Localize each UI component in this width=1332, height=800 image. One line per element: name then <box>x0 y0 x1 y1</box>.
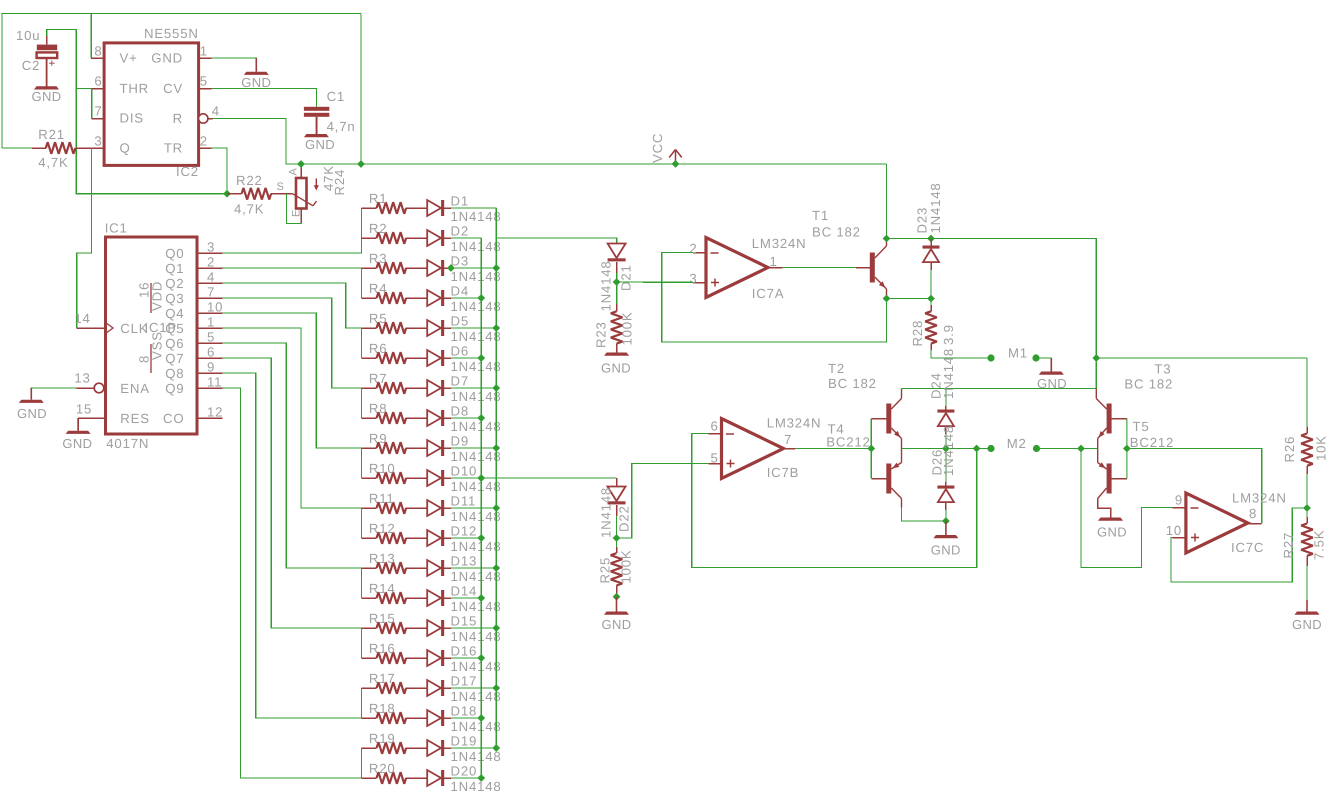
T4 base lead <box>871 478 886 480</box>
ground GND at RES <box>77 418 79 431</box>
IC 555 IC2 box <box>104 43 199 165</box>
junction junction D23 top <box>927 235 935 243</box>
svg-text:VCC: VCC <box>650 133 665 163</box>
wire wire Q6 to R13/R14 bracket <box>223 343 362 598</box>
ground GND at C1 <box>315 117 317 134</box>
wire wire D10 to column <box>451 477 481 479</box>
D24 anode lead <box>945 426 947 434</box>
wire wire D19 to column <box>451 747 496 749</box>
svg-text:Q7: Q7 <box>165 351 184 366</box>
svg-text:3.9: 3.9 <box>941 324 956 345</box>
R28 bottom lead <box>930 344 932 350</box>
R9 right lead <box>406 447 427 449</box>
ground GND at 555 pin1 <box>255 58 257 72</box>
D21 anode lead <box>616 262 618 273</box>
ground GND at D26 <box>945 521 947 535</box>
wire wire Q4 to R9/R10 bracket <box>223 313 362 478</box>
svg-text:LM324N: LM324N <box>1232 490 1287 505</box>
D4 cathode lead <box>444 297 451 299</box>
svg-text:LM324N: LM324N <box>752 236 807 251</box>
ground GND at T5 <box>1110 516 1112 519</box>
555 pin 7 stub <box>92 118 104 120</box>
svg-text:T5: T5 <box>1133 419 1150 434</box>
capacitor C2 top lead <box>46 36 48 45</box>
svg-text:R12: R12 <box>369 521 396 536</box>
svg-text:IC7C: IC7C <box>1231 540 1264 555</box>
diode D14 1N4148 <box>427 590 441 606</box>
svg-text:R2: R2 <box>369 221 387 236</box>
svg-text:1N4148: 1N4148 <box>451 209 502 224</box>
svg-text:GND: GND <box>305 137 335 152</box>
junction junction outer column y508 <box>492 504 500 512</box>
diode D12 1N4148 <box>427 530 441 546</box>
diode D11 1N4148 <box>427 500 441 516</box>
R20 left lead <box>361 777 376 779</box>
wire wire IC7A pin2 feedback <box>662 253 887 343</box>
svg-text:R19: R19 <box>369 731 396 746</box>
R17 left lead <box>361 687 376 689</box>
R18 left lead <box>361 717 376 719</box>
svg-text:S: S <box>277 181 285 193</box>
svg-text:Q0: Q0 <box>165 246 184 261</box>
svg-text:7: 7 <box>207 285 215 300</box>
svg-text:Q4: Q4 <box>165 306 184 321</box>
svg-text:3: 3 <box>689 271 697 286</box>
svg-text:5: 5 <box>200 74 208 89</box>
wire wire M2 node to D26 <box>945 449 947 483</box>
capacitor C1 bottom lead <box>316 117 318 134</box>
svg-text:10: 10 <box>1166 523 1182 538</box>
R26 bottom lead <box>1306 466 1308 474</box>
junction node IC7B output <box>867 445 875 453</box>
svg-text:CLK: CLK <box>120 321 148 336</box>
4017 pin 4 stub (Q2) <box>197 282 223 284</box>
R15 left lead <box>361 627 376 629</box>
IC7A pin 3 stub <box>693 282 706 284</box>
svg-text:4,7n: 4,7n <box>327 119 356 134</box>
wire wire Q0 to R1/R2 bracket <box>223 208 362 253</box>
R7 right lead <box>406 387 427 389</box>
R3 right lead <box>406 267 427 269</box>
supply symbol VCC <box>675 150 677 164</box>
D15 cathode lead <box>444 627 451 629</box>
svg-text:15: 15 <box>76 402 92 417</box>
R10 right lead <box>406 477 427 479</box>
svg-text:4017N: 4017N <box>106 436 149 451</box>
R21 left lead <box>32 147 46 149</box>
svg-text:D9: D9 <box>451 434 469 449</box>
diode D8 1N4148 <box>427 410 441 426</box>
wire wire ENA to GND <box>31 388 76 400</box>
diode D19 1N4148 <box>427 740 441 756</box>
R6 left lead <box>361 357 376 359</box>
svg-text:D22: D22 <box>617 505 632 532</box>
svg-text:10K: 10K <box>1314 435 1329 461</box>
D24 cathode lead <box>945 406 947 410</box>
T5 collector to GND <box>1098 499 1111 518</box>
wire wire rail row to R26 <box>1096 357 1307 359</box>
IC7C pin 8 stub <box>1248 523 1262 525</box>
4017 pin 11 stub (Q9) <box>197 387 223 389</box>
ground GND at C2 <box>46 58 48 86</box>
wire wire R22/S to E underroute <box>287 194 302 224</box>
junction node R26/R27/IC7C+ <box>1303 504 1311 512</box>
wire wire D22 node to IC7B pin5 <box>617 464 709 539</box>
junction TR/R22 node <box>223 190 231 198</box>
svg-text:R7: R7 <box>369 371 387 386</box>
svg-text:5: 5 <box>207 330 215 345</box>
R8 left lead <box>361 417 376 419</box>
svg-text:VDD: VDD <box>150 281 165 311</box>
555 pin 4 inversion bubble <box>199 114 208 123</box>
R8 right lead <box>406 417 427 419</box>
R12 left lead <box>361 537 376 539</box>
R23 top lead <box>616 304 618 311</box>
junction node T1 collector/D23 <box>883 235 891 243</box>
wire wire D23 node to T3 column <box>931 239 1096 389</box>
R16 right lead <box>406 657 427 659</box>
wire wire D2 to column <box>451 237 481 239</box>
svg-text:2: 2 <box>207 255 215 270</box>
svg-text:1N4148: 1N4148 <box>451 239 502 254</box>
wire wire Q9 to R19/R20 bracket <box>223 388 362 778</box>
svg-text:IC7A: IC7A <box>752 286 785 301</box>
wire wire IC7A out to T1 base <box>783 267 856 269</box>
R5 left lead <box>361 327 376 329</box>
wire wire base bracket T4 <box>870 449 872 479</box>
svg-text:8: 8 <box>137 355 152 363</box>
svg-text:T3: T3 <box>1154 362 1171 377</box>
wire wire bases to IC7C out <box>1127 449 1262 524</box>
junction junction inner column y538 <box>477 534 485 542</box>
R20 right lead <box>406 777 427 779</box>
555 pin 8 stub <box>91 57 104 59</box>
T5 base lead <box>1112 478 1127 480</box>
svg-text:5: 5 <box>710 451 718 466</box>
R14 right lead <box>406 597 427 599</box>
svg-text:BC 182: BC 182 <box>828 376 877 391</box>
svg-text:1N4148: 1N4148 <box>928 183 943 234</box>
svg-text:11: 11 <box>207 375 222 390</box>
R28 top lead <box>930 305 932 311</box>
wire wire D12 to column <box>451 537 481 539</box>
wire wire M1 pin2 to GND <box>1036 357 1051 359</box>
R24 wiper arrow <box>293 194 314 206</box>
svg-text:1N4148: 1N4148 <box>451 269 502 284</box>
svg-text:8: 8 <box>94 44 102 59</box>
R22 right lead <box>271 193 292 195</box>
D1 cathode lead <box>444 207 451 209</box>
svg-text:6: 6 <box>94 74 102 89</box>
R17 right lead <box>406 687 427 689</box>
4017 pin 13 stub <box>77 387 95 389</box>
svg-text:+: + <box>49 58 57 70</box>
svg-text:7.5K: 7.5K <box>1312 530 1327 560</box>
svg-text:Q1: Q1 <box>165 261 184 276</box>
svg-text:R20: R20 <box>369 761 396 776</box>
wire wire left edge to R21 <box>2 147 32 149</box>
junction junction inner column y418 <box>477 414 485 422</box>
R11 left lead <box>361 507 376 509</box>
D16 cathode lead <box>444 657 451 659</box>
svg-text:R13: R13 <box>369 551 396 566</box>
R4 right lead <box>406 297 427 299</box>
svg-text:RES: RES <box>120 411 150 426</box>
IC7B pin 7 stub <box>784 448 796 450</box>
svg-text:Q3: Q3 <box>165 291 184 306</box>
junction junction inner column y598 <box>477 594 485 602</box>
wire net C2/THR/TR: cap top to TR row <box>47 29 227 193</box>
capacitor C2 bottom lead <box>46 58 48 86</box>
T2 base lead <box>871 418 886 420</box>
svg-text:THR: THR <box>120 81 150 96</box>
capacitor C2 10u polarized <box>37 45 57 51</box>
R2 right lead <box>406 237 427 239</box>
wire wire IC7B pin6 feedback <box>692 434 977 568</box>
svg-text:R: R <box>173 111 183 126</box>
wire wire Q3 to R7/R8 bracket <box>223 298 362 418</box>
svg-text:GND: GND <box>601 617 631 632</box>
wire wire T4 collector to D26 gnd node <box>902 508 946 522</box>
junction junction inner column y478 <box>477 474 485 482</box>
svg-text:R21: R21 <box>38 127 65 142</box>
D13 cathode lead <box>444 567 451 569</box>
junction node D21/R23/IC7A+ <box>613 278 621 286</box>
R19 right lead <box>406 747 427 749</box>
wire net THR/DIS link <box>76 89 91 119</box>
wire wire D21 to node <box>616 273 618 282</box>
IC 4017N IC1 box <box>106 237 198 434</box>
555 pin 2 stub <box>199 147 212 149</box>
svg-text:1N4148: 1N4148 <box>451 539 502 554</box>
4017 pin 10 stub (Q4) <box>197 312 223 314</box>
svg-text:GND: GND <box>151 51 183 66</box>
R4 left lead <box>361 297 376 299</box>
svg-text:1N4148: 1N4148 <box>451 389 502 404</box>
ground GND at ENA <box>30 388 32 400</box>
R22 left lead <box>227 193 242 195</box>
junction node T3/T5 bases <box>1123 445 1131 453</box>
svg-text:Q: Q <box>120 141 131 156</box>
svg-text:D14: D14 <box>451 584 478 599</box>
IC1 CLK input triangle <box>106 323 114 334</box>
R2 left lead <box>361 237 376 239</box>
svg-text:100K: 100K <box>619 550 634 584</box>
svg-text:1N4148: 1N4148 <box>451 449 502 464</box>
wire wire M2 pin2 to T3/T5 <box>1037 448 1098 450</box>
D23 anode lead <box>930 262 932 270</box>
R13 right lead <box>406 567 427 569</box>
svg-text:R17: R17 <box>369 671 396 686</box>
svg-text:D21: D21 <box>619 264 634 291</box>
wire wire D26 to gnd node <box>945 510 947 521</box>
wire wire T1 collector node to D23 <box>887 238 932 240</box>
wire wire 555 GND pin1 <box>212 58 257 72</box>
D14 cathode lead <box>444 597 451 599</box>
svg-text:IC7B: IC7B <box>767 465 800 480</box>
svg-text:D13: D13 <box>451 554 478 569</box>
svg-text:BC212: BC212 <box>826 434 870 449</box>
svg-text:R11: R11 <box>369 491 395 506</box>
svg-text:14: 14 <box>74 311 90 326</box>
wire wire D3 to column <box>451 267 496 269</box>
svg-text:8: 8 <box>1249 506 1257 521</box>
junction junction VCC symbol <box>672 160 680 168</box>
svg-text:R14: R14 <box>369 581 396 596</box>
junction junction outer column y568 <box>492 564 500 572</box>
svg-text:D16: D16 <box>451 644 478 659</box>
svg-text:R24: R24 <box>332 169 347 196</box>
svg-text:4,7K: 4,7K <box>38 155 68 170</box>
junction junction inner column y358 <box>477 354 485 362</box>
junction node pot A on rail <box>297 160 305 168</box>
D19 cathode lead <box>444 747 451 749</box>
svg-text:LM324N: LM324N <box>767 416 822 431</box>
R27 bottom lead <box>1306 556 1308 566</box>
wire T2/T3 collector rail <box>902 388 1097 390</box>
svg-text:BC 182: BC 182 <box>1124 377 1173 392</box>
svg-text:1N4148: 1N4148 <box>451 779 502 794</box>
svg-text:2: 2 <box>200 134 208 149</box>
R26 top lead <box>1306 427 1308 434</box>
wire wire collector rail to D24 <box>945 389 947 407</box>
svg-text:R16: R16 <box>369 641 396 656</box>
555 pin 1 stub <box>199 57 212 59</box>
junction junction inner column y658 <box>477 654 485 662</box>
svg-text:1N4148: 1N4148 <box>599 487 614 538</box>
svg-text:GND: GND <box>241 75 271 90</box>
svg-text:R3: R3 <box>369 251 387 266</box>
4017 pin 9 stub (Q8) <box>197 372 223 374</box>
wire wire 555 Q to 4017 CLK <box>77 148 92 328</box>
svg-text:7: 7 <box>94 104 102 119</box>
svg-text:R22: R22 <box>236 173 263 188</box>
junction junction outer column y328 <box>492 324 500 332</box>
wire wire 555 TR to R22 node <box>212 148 227 194</box>
transistor T5 BC212 <box>1107 464 1112 494</box>
4017 pin 7 stub (Q3) <box>197 297 223 299</box>
svg-text:Q9: Q9 <box>165 381 184 396</box>
wire wire odd column to D21 <box>496 238 616 244</box>
svg-text:1N4148: 1N4148 <box>451 509 502 524</box>
svg-text:D3: D3 <box>451 254 469 269</box>
svg-text:GND: GND <box>601 361 631 376</box>
wire ladder outer column (odd diodes) <box>495 208 497 748</box>
svg-text:10u: 10u <box>16 28 40 43</box>
svg-text:GND: GND <box>31 89 61 104</box>
svg-text:D6: D6 <box>451 344 469 359</box>
svg-text:R26: R26 <box>1282 436 1297 463</box>
diode D16 1N4148 <box>427 650 441 666</box>
R18 right lead <box>406 717 427 719</box>
IC7B pin 5 stub <box>708 463 721 465</box>
R12 right lead <box>406 537 427 539</box>
wire wire D8 to column <box>451 417 481 419</box>
wire wire D23 to emitter node <box>930 270 932 299</box>
svg-text:1N4148: 1N4148 <box>941 348 956 399</box>
D26 anode lead <box>945 502 947 510</box>
4017 pin 12 stub (CO) <box>197 417 223 419</box>
wire wire D22 to node <box>616 516 618 538</box>
wire top border net from VCC rail to 555 pin8 and left edge <box>2 14 361 149</box>
R24 bottom lead <box>300 209 302 224</box>
ground GND at M1 <box>1050 358 1052 372</box>
D5 cathode lead <box>444 327 451 329</box>
D11 cathode lead <box>444 507 451 509</box>
diode D5 1N4148 <box>427 320 441 336</box>
junction junction IC7C sense tap <box>1077 445 1085 453</box>
555 pin 5 stub <box>199 88 212 90</box>
wire wire Q2 to R5/R6 bracket <box>223 283 362 358</box>
svg-text:D5: D5 <box>451 314 469 329</box>
junction rail/top-border junction <box>357 160 365 168</box>
svg-text:R9: R9 <box>369 431 387 446</box>
junction junction M2/D26 <box>942 445 950 453</box>
svg-text:10: 10 <box>207 300 223 315</box>
wire T3/T5 base bracket <box>1126 419 1128 479</box>
junction node T1 emitter <box>883 295 891 303</box>
R11 right lead <box>406 507 427 509</box>
wire wire R28 to M1 <box>931 350 991 358</box>
diode D6 1N4148 <box>427 350 441 366</box>
M1 pin 2 end <box>1032 354 1039 361</box>
svg-text:Q8: Q8 <box>165 366 184 381</box>
svg-text:R23: R23 <box>594 321 609 348</box>
D22 anode lead <box>616 505 618 516</box>
svg-text:D8: D8 <box>451 404 469 419</box>
svg-text:R4: R4 <box>369 281 387 296</box>
svg-text:7: 7 <box>784 432 792 447</box>
svg-text:1N4148: 1N4148 <box>451 689 502 704</box>
svg-text:NE555N: NE555N <box>144 26 199 41</box>
junction junction feedback tap M2 left <box>973 445 981 453</box>
svg-text:1N4148: 1N4148 <box>599 261 614 312</box>
wire wire 555 CV to C1 <box>212 89 317 107</box>
wire wire D7 to column <box>451 387 496 389</box>
diode D10 1N4148 <box>427 470 441 486</box>
svg-text:BC 182: BC 182 <box>812 225 861 240</box>
wire wire IC7B out to T2/T4 bases <box>795 448 871 450</box>
wire wire Q8 to R17/R18 bracket <box>223 373 362 718</box>
svg-text:R18: R18 <box>369 701 396 716</box>
wire ladder inner column (even diodes) <box>480 238 482 778</box>
svg-text:T2: T2 <box>828 361 845 376</box>
ground GND at R27 <box>1306 600 1308 612</box>
svg-text:VSS: VSS <box>150 331 165 360</box>
junction junction inner column y778 <box>477 774 485 782</box>
svg-text:Q2: Q2 <box>165 276 184 291</box>
junction junction outer column y448 <box>492 444 500 452</box>
svg-text:IC2: IC2 <box>176 164 199 179</box>
svg-text:BC212: BC212 <box>1130 435 1174 450</box>
svg-text:R27: R27 <box>1281 532 1296 559</box>
wire wire Q5 to R11/R12 bracket <box>223 328 362 538</box>
IC7A pin 2 stub <box>693 252 706 254</box>
junction junction outer column y748 <box>492 744 500 752</box>
diode D7 1N4148 <box>427 380 441 396</box>
svg-text:R1: R1 <box>369 191 387 206</box>
555 pin 3 stub <box>91 147 104 149</box>
svg-text:1N4148: 1N4148 <box>451 329 502 344</box>
svg-text:GND: GND <box>1292 617 1322 632</box>
svg-text:4,7K: 4,7K <box>234 202 264 217</box>
diode D3 1N4148 <box>427 260 441 276</box>
svg-text:1N4148: 1N4148 <box>451 359 502 374</box>
svg-text:D2: D2 <box>451 224 469 239</box>
svg-text:1: 1 <box>200 44 208 59</box>
svg-text:R10: R10 <box>369 461 396 476</box>
4017 pin 1 stub (Q5) <box>197 327 223 329</box>
